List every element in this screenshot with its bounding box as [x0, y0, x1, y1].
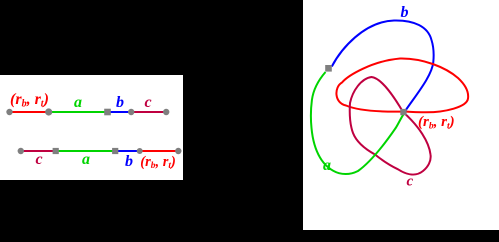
svg-text:c: c — [36, 151, 43, 168]
svg-text:b: b — [401, 4, 409, 21]
loop r red — [336, 58, 468, 112]
svg-text:a: a — [323, 157, 331, 174]
svg-text:(rb, rt): (rb, rt) — [10, 91, 49, 110]
endpoint dot diagram 2 right — [175, 148, 181, 154]
dot 4 — [163, 109, 169, 115]
endpoint dot 1 — [6, 109, 12, 115]
loop c purple — [350, 77, 431, 175]
dot 2 — [45, 108, 52, 115]
segment c purple, diagram 1 — [131, 111, 166, 113]
square marker diagram 1 — [104, 109, 111, 116]
dot diagram 2 — [137, 148, 143, 154]
dot 3 — [128, 109, 134, 115]
square marker 1 diagram 2 — [53, 148, 59, 154]
segment a green, diagram 1 — [49, 111, 108, 113]
segment a green, diagram 2 — [56, 150, 115, 152]
segment (r_b,r_t) red, diagram 2 — [140, 150, 179, 152]
curve a green — [311, 72, 404, 174]
svg-text:(rb, rt): (rb, rt) — [418, 114, 455, 132]
left white panel — [0, 75, 183, 180]
square marker 2 diagram 2 — [112, 148, 118, 154]
center crossing square — [400, 109, 406, 115]
svg-text:c: c — [407, 174, 414, 190]
segment c purple, diagram 2 — [21, 150, 56, 152]
svg-text:c: c — [145, 94, 152, 111]
marked point square S1 — [325, 65, 332, 72]
segment (r_b,r_t) red, diagram 1 — [10, 111, 49, 113]
svg-text:b: b — [116, 94, 124, 111]
segment b blue, diagram 1 — [108, 111, 132, 113]
endpoint dot diagram 2 left — [18, 148, 24, 154]
svg-text:b: b — [125, 153, 133, 170]
svg-text:(rb, rt): (rb, rt) — [140, 154, 175, 171]
svg-text:a: a — [82, 151, 90, 168]
segment b blue, diagram 2 — [115, 150, 140, 152]
right white panel — [303, 0, 499, 230]
svg-text:a: a — [74, 94, 82, 111]
curve b blue — [332, 20, 434, 110]
